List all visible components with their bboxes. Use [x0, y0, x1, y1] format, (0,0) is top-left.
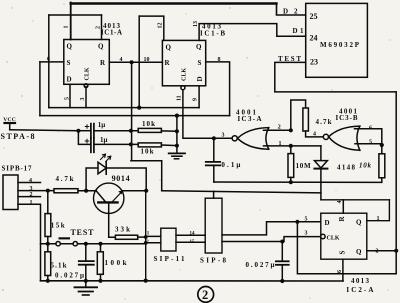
- wire V2 vertical x139.2 from pin12 wire down to W1: [138, 16, 140, 108]
- svg-text:S: S: [339, 251, 347, 255]
- svg-text:5: 5: [64, 97, 70, 100]
- svg-text:Q: Q: [356, 219, 362, 227]
- svg-text:0.1μ: 0.1μ: [221, 161, 240, 169]
- wire IC3-B input pin 5: [355, 143, 382, 145]
- node junction IC3-A output: [212, 136, 216, 140]
- wire 15k stem from base wire: [47, 191, 49, 214]
- wire stub down to IC2-A R pin 4: [342, 200, 344, 213]
- resistor 4.7k vertical: [303, 108, 309, 131]
- wire tie node down to 10k-B: [381, 145, 383, 154]
- svg-text:33k: 33k: [115, 226, 130, 234]
- node junction 10M bottom rail: [289, 180, 293, 184]
- ground symbol G1: [169, 152, 185, 154]
- capacitor 0.1u plates: [206, 161, 220, 163]
- wire down and left to IC2-A Q pin 1: [367, 200, 390, 221]
- wire collector wire to node: [122, 190, 146, 192]
- symbol circled 2 figure number: [198, 287, 214, 303]
- svg-text:15: 15: [190, 240, 196, 245]
- svg-text:6: 6: [369, 125, 372, 131]
- wire IC3-A output bubble to node: [214, 137, 232, 139]
- wire IC2-A Qbar pin 2 to right vertical: [367, 250, 396, 252]
- wire IC1-B Q pin 12 stub and top wire to V2: [139, 16, 164, 40]
- wire W1 horizontal: [49, 107, 199, 109]
- svg-text:1: 1: [30, 200, 33, 206]
- svg-text:D: D: [67, 76, 72, 84]
- wire 10M bottom stem: [290, 177, 292, 182]
- svg-text:IC2-A: IC2-A: [346, 286, 373, 294]
- flip-flop IC1-A box: [64, 40, 110, 85]
- wire D-net vertical down and around to right vertical: [297, 222, 396, 274]
- LED arrows: [101, 154, 106, 159]
- transistor emitter lead with arrow: [112, 191, 122, 202]
- wire TEST line to SIP-11 pin2: [146, 242, 161, 244]
- svg-text:4148: 4148: [337, 164, 356, 172]
- wire branch down to second cap: [78, 131, 90, 145]
- wire right-edge vertical TEST net down to Qbar of IC2-A and D-net return: [395, 92, 397, 274]
- svg-text:Q: Q: [98, 43, 104, 51]
- wire long vertical from collector node down to bottom rail: [145, 191, 147, 281]
- node junction rail 0.027u: [84, 279, 88, 283]
- connector SIP-11 box: [161, 228, 176, 251]
- svg-text:4.7k: 4.7k: [316, 118, 332, 126]
- svg-text:CLK: CLK: [327, 236, 340, 242]
- resistor 10k right: [379, 154, 385, 178]
- svg-text:13: 13: [193, 21, 199, 27]
- node junction rail 100k: [98, 279, 102, 283]
- wire top rail corner down into pin 25: [277, 4, 306, 16]
- svg-text:10M: 10M: [296, 162, 311, 170]
- node junction pin2: [289, 128, 293, 132]
- svg-text:10k: 10k: [141, 148, 154, 156]
- wire W2 horizontal (ground net): [40, 115, 230, 117]
- svg-text:CLK: CLK: [85, 67, 91, 80]
- svg-text:6: 6: [337, 270, 343, 273]
- node junction rail 5.1k: [46, 279, 50, 283]
- clock bubble IC1-B: [181, 86, 185, 90]
- wire SIP-8 right lower to IC2-A CLK pin 3: [222, 237, 321, 242]
- svg-text:1: 1: [64, 26, 70, 29]
- wire LED cathode right and down to collector node: [106, 168, 146, 191]
- svg-text:4: 4: [337, 201, 343, 204]
- wire 5.1k bottom to rail: [47, 276, 49, 281]
- wire 10k upper right end to ground vertical: [161, 130, 177, 132]
- svg-text:IC3-B: IC3-B: [336, 114, 358, 122]
- svg-text:TEST: TEST: [71, 228, 95, 237]
- svg-text:3: 3: [305, 231, 308, 237]
- node junction V1 at cap C2 wire: [129, 142, 133, 146]
- svg-text:10: 10: [144, 57, 150, 63]
- svg-text:Q: Q: [356, 248, 362, 256]
- resistor 10k (upper): [138, 128, 161, 132]
- switch TEST button contacts: [56, 242, 60, 246]
- wire B horizontal from V1 corner to 4148: [162, 191, 321, 193]
- transistor base bar: [98, 201, 117, 203]
- svg-text:2: 2: [30, 192, 33, 198]
- power VCC symbol: [5, 122, 16, 124]
- capacitor 0.027u right plates: [276, 260, 289, 262]
- wire 0.027u-2 bottom to rail: [281, 266, 283, 281]
- clock bubble IC1-A: [84, 84, 88, 88]
- wire IC1-B S pin 8 right and down to W2: [206, 62, 230, 116]
- wire IC1-A CLK pin 3 stub down to W1: [85, 87, 87, 108]
- svg-text:4: 4: [120, 57, 123, 63]
- svg-text:9014: 9014: [112, 174, 130, 183]
- resistor 4.7k horizontal: [54, 189, 78, 193]
- node junction pin5/6 tie: [380, 143, 384, 147]
- capacitor C1 polarity plus: [85, 125, 89, 129]
- wire feedback y15 from S-vertical to Qbar stub: [49, 14, 102, 16]
- wire SIPB pin4 stub: [18, 182, 41, 184]
- wire SIP-11 to SIP-8 lower: [176, 241, 205, 243]
- wire reset net to right: [321, 199, 390, 201]
- svg-text:Q: Q: [196, 43, 202, 51]
- svg-text:SIPB-17: SIPB-17: [2, 165, 33, 173]
- wire SIP-8 top stub to wire B: [213, 191, 215, 198]
- wire IC2-A S pin 6 stub down to rail end: [342, 259, 344, 281]
- node junction collector / LED cathode: [144, 189, 148, 193]
- wire V1 corner down to wire-B: [131, 161, 162, 191]
- svg-text:6: 6: [47, 56, 50, 62]
- wire IC3-B input pin 6 to right and down: [355, 129, 382, 146]
- node junction D net: [295, 220, 299, 224]
- svg-text:4: 4: [313, 132, 316, 138]
- node junction 33k / vertical: [144, 235, 148, 239]
- node junction 0.027u-1 stem: [84, 242, 88, 246]
- op-amp U2 NOR gate IC3-B (mirrored, output left): [323, 134, 328, 139]
- node junction Qbar / right vertical: [394, 249, 398, 253]
- wire V1 vertical x131.6 down to cap node: [131, 62, 133, 160]
- svg-text:D: D: [325, 219, 330, 227]
- svg-text:4: 4: [29, 178, 32, 184]
- node junction rail long vertical: [144, 279, 148, 283]
- svg-text:1μ: 1μ: [100, 136, 108, 144]
- ground symbol G2 under 0.027u: [85, 281, 87, 287]
- transistor Q1 9014 circle: [94, 183, 124, 213]
- wire rail A horizontal: [214, 181, 382, 183]
- svg-text:9: 9: [193, 98, 199, 101]
- wire SIPB pin3 to 4.7k: [18, 190, 54, 192]
- wire into cap C1: [78, 130, 90, 132]
- node junction at ground vertical mid: [175, 144, 179, 148]
- capacitor C1 1u plates: [90, 124, 92, 138]
- wire SIP-8 right upper to IC2-A D pin 5: [222, 222, 321, 235]
- diode LED cathode bar: [105, 162, 107, 174]
- wire IC1-A S pin 6 to left: [40, 61, 64, 63]
- capacitor C2 1u plates: [90, 138, 92, 152]
- svg-text:2: 2: [202, 288, 208, 302]
- svg-text:15k: 15k: [51, 222, 65, 230]
- node junction rail 0.027u-2: [280, 279, 284, 283]
- switch TEST button bar: [59, 237, 71, 239]
- node junction V2 on W1: [137, 106, 141, 110]
- transistor base lead: [96, 191, 106, 202]
- wire SIPB pin1 down to bottom rail: [18, 204, 41, 280]
- svg-text:8: 8: [218, 57, 221, 63]
- diode 4148 stem from IC3-A input node: [320, 146, 322, 161]
- node junction pin1: [289, 144, 293, 148]
- node junction 15k top on base wire: [46, 189, 50, 193]
- svg-text:4.7k: 4.7k: [56, 175, 74, 183]
- wire cap C2 out to 10k R-b: [94, 143, 138, 145]
- node junction TEST / vertical: [144, 241, 148, 245]
- resistor 100k: [97, 252, 103, 274]
- diode 4148 triangle: [314, 161, 327, 168]
- wire SIP-11 to SIP-8 upper: [176, 234, 205, 236]
- wire vertical x39.9 S down to W2: [39, 62, 41, 116]
- svg-text:Q: Q: [166, 44, 172, 52]
- svg-text:25: 25: [310, 12, 318, 21]
- wire VCC feed to capacitors: [10, 129, 79, 132]
- svg-text:IC1-A: IC1-A: [101, 29, 122, 37]
- wire 10M top stem: [290, 146, 292, 154]
- diode 4148 cathode bar: [314, 168, 327, 170]
- flip-flop IC1-B box: [162, 40, 205, 85]
- top rail from IC1-A Q to M69032P D2 pin 25: [71, 2, 277, 4]
- wire 100k bottom to rail: [100, 274, 102, 281]
- svg-text:3: 3: [222, 133, 225, 139]
- wire 0.027u-2 stem: [281, 242, 283, 261]
- node junction 100k stem: [99, 242, 103, 246]
- svg-text:S: S: [67, 59, 71, 67]
- svg-text:M69032P: M69032P: [320, 41, 360, 49]
- wire vertical x48.8 from y15 through S wire down to W1: [48, 15, 50, 108]
- wire SIPB pin2 stub: [18, 196, 41, 198]
- wire 100k stem: [100, 244, 102, 252]
- connector SIPB-17 box: [3, 175, 18, 210]
- svg-text:1: 1: [279, 141, 282, 147]
- wire 4.7k-B bottom to IC3-B output bubble: [306, 131, 324, 137]
- node junction at ground vertical top: [175, 129, 179, 133]
- svg-text:11: 11: [176, 95, 182, 101]
- flip-flop IC2-A box: [321, 213, 367, 259]
- svg-text:1: 1: [377, 216, 380, 222]
- wire LED anode up: [86, 168, 98, 191]
- svg-text:10k: 10k: [142, 120, 155, 128]
- wire vertical to SIP-11 pin1: [146, 235, 161, 237]
- resistor 10M: [288, 154, 294, 178]
- wire 0.027u-1 bottom to rail: [85, 266, 87, 281]
- resistor 33k: [115, 235, 137, 239]
- capacitor 0.027u plates: [79, 260, 94, 262]
- wire 33k right to long vertical: [138, 236, 146, 238]
- wire 4.7k-B top loop from pin2 node: [291, 100, 306, 130]
- node junction 0.027u-2 on CLK wire: [280, 240, 284, 244]
- wire 0.1u stem from IC3-A output node: [213, 138, 215, 161]
- resistor 5.1k: [45, 252, 51, 276]
- svg-text:5: 5: [369, 140, 372, 146]
- node junction W2 / ground vertical: [175, 114, 179, 118]
- wire 5.1k stem: [47, 244, 49, 252]
- wire 10k-B bottom to rail A: [381, 178, 383, 183]
- wire 15k bottom to TEST wire: [47, 237, 49, 244]
- wire IC1-A R pin 4 to IC1-B R pin 10: [109, 61, 162, 63]
- wire TEST from pin 23 left, down and right to right-edge vertical: [275, 62, 396, 92]
- svg-text:3: 3: [80, 98, 86, 101]
- node junction at cap branch: [76, 129, 80, 133]
- svg-text:IC3-A: IC3-A: [238, 115, 262, 123]
- svg-text:2: 2: [96, 26, 102, 29]
- svg-text:14: 14: [190, 232, 196, 237]
- svg-text:5: 5: [305, 216, 308, 222]
- svg-text:Q: Q: [67, 43, 73, 51]
- svg-text:4013: 4013: [351, 277, 370, 285]
- svg-text:12: 12: [158, 23, 164, 29]
- svg-text:24: 24: [310, 34, 318, 43]
- svg-text:VCC: VCC: [3, 117, 16, 123]
- op-amp U1 NOR gate IC3-A (mirrored, output left): [232, 136, 237, 141]
- svg-text:23: 23: [310, 58, 318, 67]
- svg-text:S: S: [198, 59, 202, 67]
- capacitor C2 polarity plus: [85, 139, 89, 143]
- wire IC1-B D pin 9 stub down to W1 right end: [198, 86, 200, 108]
- wire 10k lower right end to ground vertical: [161, 144, 177, 147]
- wire 0.027u-1 stem: [85, 244, 87, 261]
- wire IC3-A input pin 1 feedback to 4148 anode: [264, 145, 321, 147]
- clock bubble IC2-A: [321, 234, 325, 238]
- svg-text:D: D: [196, 76, 204, 81]
- svg-text:10k: 10k: [359, 162, 372, 170]
- wire 4.7k to base node: [78, 190, 96, 192]
- diode LED triangle: [98, 162, 106, 174]
- svg-text:2: 2: [376, 248, 379, 254]
- svg-text:IC1-B: IC1-B: [200, 30, 225, 38]
- wire IC1-A Qbar pin 2 stub up: [101, 15, 103, 40]
- wire IC3-A input pin 2: [264, 129, 291, 131]
- wire IC1-B Qbar pin 13 up and right to M69032P D1 pin 24: [199, 24, 306, 41]
- node junction V1 at cap C1 wire: [129, 129, 133, 133]
- node junction V1 on R wire: [130, 60, 134, 64]
- wire IC1-A Q pin 1 stub up to top rail: [70, 3, 72, 40]
- wire IC1-B CLK pin 11 stub down to IC3-A output node: [183, 90, 214, 139]
- resistor 15k: [45, 214, 51, 237]
- wire 4148 cathode down across rail A to wire-B level: [320, 170, 322, 200]
- wire ground vertical from W2 down to ground symbol: [176, 116, 178, 154]
- node junction LED anode on base wire: [84, 189, 88, 193]
- resistor 10k (lower): [138, 143, 161, 147]
- wire TEST push line: [41, 243, 146, 245]
- wire bottom ground rail: [41, 280, 344, 282]
- chip M69032P box: [306, 3, 368, 77]
- node junction 15k/5.1k on TEST wire: [46, 242, 50, 246]
- wire transistor bottom lead to 33k: [109, 202, 116, 237]
- svg-text:5.1k: 5.1k: [51, 262, 67, 270]
- svg-text:1μ: 1μ: [98, 121, 106, 129]
- wire cap C1 out to 10k R-a: [94, 130, 138, 132]
- connector SIP-8 box: [205, 198, 222, 253]
- svg-text:2: 2: [278, 124, 281, 130]
- svg-text:CLK: CLK: [182, 68, 188, 81]
- wire IC1-A D pin 5 stub down to W1: [69, 84, 71, 107]
- wire 0.1u bottom to rail A: [213, 166, 215, 182]
